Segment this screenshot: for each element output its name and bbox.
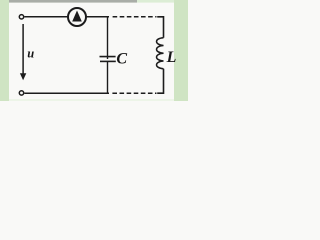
inductor L: [157, 38, 164, 69]
capacitor C: [100, 57, 116, 62]
voltage arrow u: [20, 24, 26, 80]
wire bottom: [24, 92, 109, 94]
svg-text:L: L: [166, 49, 177, 66]
wire dashed bottom: [112, 92, 156, 94]
current source: [68, 8, 86, 26]
wire corner top-right: [157, 17, 163, 38]
terminal top-left: [19, 15, 23, 19]
wire capacitor-bottom: [107, 61, 109, 93]
wire dashed top: [113, 16, 157, 18]
terminal bottom-left: [19, 91, 23, 95]
wire corner bottom-right: [157, 69, 163, 94]
wire top-middle: [86, 16, 109, 18]
svg-text:u: u: [27, 46, 34, 60]
svg-text:C: C: [116, 50, 127, 67]
wire top-left: [24, 16, 68, 18]
node capacitor-top junction: [107, 17, 109, 59]
